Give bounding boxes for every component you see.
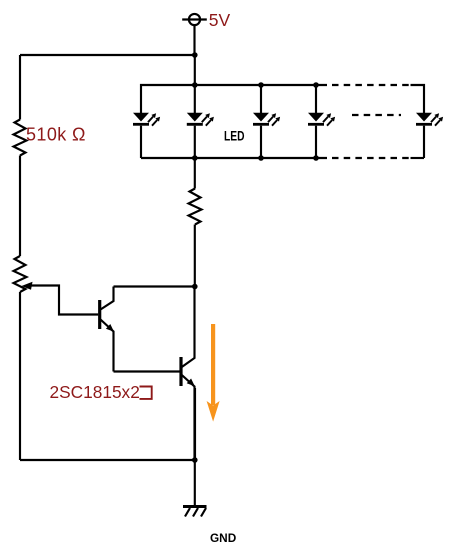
resistor middle [189,189,202,225]
junction LED bottom bus at fourth LED [313,155,319,161]
wire top horizontal to left branch [20,54,195,56]
wire bottom horizontal [20,459,195,461]
dashed continuation at LED row level [352,114,401,116]
junction collector node [192,284,198,290]
junction LED top bus at fourth LED [313,82,319,88]
junction LED bottom bus at main line [192,155,198,161]
svg-text:LED: LED [224,129,245,144]
svg-text:510k Ω: 510k Ω [26,125,86,145]
bottom bus right solid segment [411,157,425,159]
wire left vertical upper [19,55,21,120]
wire Q1 collector to main vertical [114,285,196,287]
dashed continuation of bottom bus [332,157,409,159]
main vertical wire from top node through LED column [194,55,196,114]
junction bottom node [192,457,198,463]
svg-text:5V: 5V [209,10,231,30]
junction LED top bus at third LED [258,82,264,88]
junction LED top bus at main line [192,82,198,88]
transistor Q1 [100,287,114,372]
LED D4 [308,85,335,158]
power terminal 5V [182,14,207,25]
LED D3 [253,85,280,158]
LED array box left edge wire [141,85,327,114]
wire left vertical middle [19,156,21,257]
svg-text:2SC1815x2: 2SC1815x2 [50,382,140,402]
wire from 5V terminal down to top node [193,25,195,55]
LED D2 [187,113,214,158]
transistor Q2 [181,287,195,461]
wire main vertical below LED box [194,158,196,189]
potentiometer [14,256,27,292]
junction LED bottom bus at third LED [258,155,264,161]
LED D1 [133,113,160,158]
resistor 510k [14,120,27,156]
wire Q1 emitter to Q2 base [114,370,180,372]
current arrow [207,324,220,422]
potentiometer wiper arrow [22,282,33,290]
ground [183,507,207,517]
wire wiper to base step [30,286,98,315]
top bus right solid segment and right edge wire [411,85,425,114]
wire Q2 emitter down to bottom node [194,388,196,460]
wire left vertical lower [19,292,21,460]
label 2SC1815x2 [50,382,140,402]
wire main vertical to collector node [194,225,196,287]
LED D5 [416,113,443,158]
svg-text:GND: GND [210,531,237,545]
wire to ground [194,460,196,506]
junction top node [192,52,198,58]
LED bottom bus wire [141,157,327,159]
dashed continuation of top bus [332,84,409,86]
label katakana ko [140,387,152,399]
